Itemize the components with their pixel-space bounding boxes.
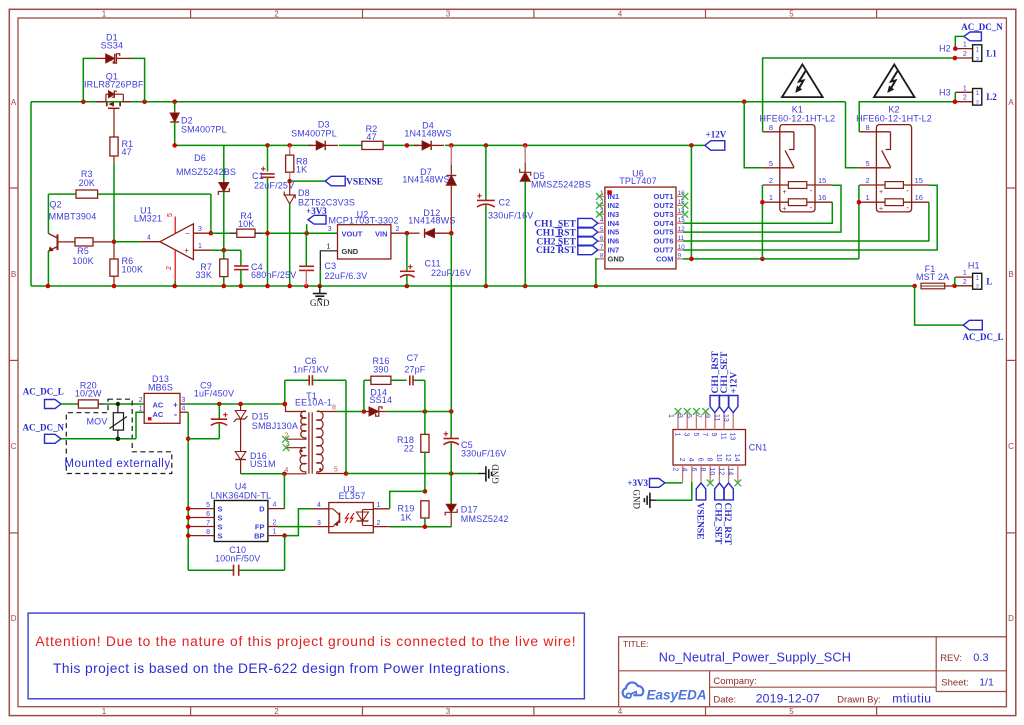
svg-text:100K: 100K	[122, 265, 144, 275]
svg-text:2: 2	[377, 520, 381, 527]
svg-text:3: 3	[198, 226, 202, 233]
bridge rectifier D13 (MB6S)	[139, 374, 188, 423]
svg-text:SS14: SS14	[369, 395, 392, 405]
svg-text:-: -	[810, 203, 813, 212]
diode D8 (zener BZT52C3V3S)	[284, 181, 355, 286]
resistor R7	[196, 250, 228, 286]
wire U6 GND to rail	[596, 259, 598, 286]
svg-text:2: 2	[166, 266, 173, 270]
capacitor C1	[252, 145, 294, 286]
svg-text:MST 2A: MST 2A	[916, 272, 949, 282]
svg-text:10/2W: 10/2W	[75, 389, 102, 399]
diode D5 (zener MMSZ5242BS)	[520, 145, 591, 286]
net flag CH1_RST (U6 IN5)	[536, 227, 598, 238]
svg-text:OUT5: OUT5	[653, 228, 673, 237]
wire OUT6 to K2 pin16	[683, 202, 929, 241]
svg-text:1N4148WS: 1N4148WS	[402, 175, 449, 185]
svg-text:4: 4	[285, 467, 289, 474]
svg-text:8: 8	[206, 529, 210, 536]
svg-text:5: 5	[685, 414, 692, 418]
svg-text:5: 5	[167, 213, 174, 217]
svg-text:IRLR8726PBF: IRLR8726PBF	[84, 79, 144, 89]
svg-text:IN5: IN5	[608, 228, 620, 237]
diode D1	[96, 33, 132, 64]
svg-text:TPL7407: TPL7407	[619, 176, 657, 186]
svg-text:3: 3	[446, 9, 451, 18]
wire D7/D12 column down to transformer row	[449, 231, 454, 412]
wire FP to U3 pin3	[278, 526, 311, 528]
svg-text:C: C	[11, 442, 17, 451]
svg-text:B: B	[11, 270, 16, 279]
svg-text:GND: GND	[608, 255, 625, 264]
svg-text:+: +	[782, 189, 786, 196]
svg-text:C: C	[1008, 442, 1014, 451]
no-connect X marks U6 OUT1-OUT3	[682, 193, 689, 218]
diode D17 (zener MMSZ5242)	[445, 474, 508, 527]
svg-text:L: L	[986, 276, 992, 286]
svg-text:5: 5	[334, 466, 338, 473]
svg-text:+12V: +12V	[706, 130, 727, 140]
svg-text:4: 4	[182, 406, 186, 413]
net flag +12V	[705, 130, 727, 151]
wire net rowA main horizontal	[31, 99, 846, 286]
svg-text:CN1: CN1	[749, 443, 767, 453]
svg-text:5: 5	[789, 9, 794, 18]
svg-text:1: 1	[963, 270, 967, 277]
svg-text:1: 1	[273, 529, 277, 536]
svg-text:5: 5	[789, 707, 794, 716]
capacitor C10	[188, 536, 284, 576]
wire junction H2 pin2	[953, 56, 958, 61]
svg-text:3: 3	[676, 414, 683, 418]
svg-text:8: 8	[706, 458, 713, 462]
diode D16 (US1M)	[235, 451, 275, 474]
resistor R1	[110, 125, 133, 163]
wire secondary GND row	[346, 471, 478, 476]
svg-text:13: 13	[722, 414, 729, 422]
svg-text:10K: 10K	[238, 219, 254, 229]
svg-text:-: -	[810, 186, 813, 195]
no-connect X CN1 pin8	[707, 480, 714, 487]
svg-text:IN7: IN7	[608, 246, 620, 255]
svg-text:22uF/6.3V: 22uF/6.3V	[325, 271, 368, 281]
svg-text:SM4007PL: SM4007PL	[181, 125, 227, 135]
net flag +3V3 (U2)	[306, 206, 327, 233]
svg-text:4: 4	[681, 468, 688, 472]
net flag AC_DC_L (input)	[23, 387, 64, 409]
svg-text:2: 2	[963, 95, 967, 102]
no-connect X CN1 pin14	[734, 480, 741, 487]
capacitor C4	[234, 250, 296, 286]
svg-text:C1: C1	[252, 171, 264, 181]
svg-text:330uF/16V: 330uF/16V	[461, 449, 506, 459]
svg-text:B: B	[1008, 270, 1013, 279]
svg-text:1: 1	[667, 414, 674, 418]
wire F1 junctions	[952, 277, 957, 288]
connector CN1	[667, 413, 767, 483]
svg-text:VSENSE: VSENSE	[694, 503, 704, 540]
wire rowA to K2 pin5	[846, 102, 860, 168]
svg-text:2: 2	[769, 176, 773, 185]
net flag CH2_RST (CN1 pin12)	[722, 483, 733, 545]
svg-text:3: 3	[328, 226, 332, 233]
svg-text:1: 1	[963, 42, 967, 49]
svg-text:12: 12	[717, 468, 724, 476]
svg-text:AC: AC	[153, 410, 164, 419]
svg-text:1uF/450V: 1uF/450V	[194, 389, 234, 399]
svg-text:IN3: IN3	[608, 210, 620, 219]
svg-text:1: 1	[673, 433, 680, 437]
svg-text:+12V: +12V	[729, 372, 739, 394]
wire T1 pin8 row to D14	[338, 409, 366, 414]
svg-text:EE10A-1: EE10A-1	[295, 398, 332, 408]
svg-text:4: 4	[317, 502, 321, 509]
resistor R20	[61, 380, 105, 408]
svg-text:2: 2	[866, 176, 870, 185]
svg-text:4: 4	[618, 9, 623, 18]
resistor R19	[398, 501, 429, 527]
svg-text:7: 7	[701, 433, 708, 437]
wire U3 pin2 row	[390, 525, 452, 530]
op-amp U1 (LM321)	[134, 206, 211, 287]
svg-text:OUT1: OUT1	[653, 192, 673, 201]
svg-text:D8: D8	[298, 188, 310, 198]
svg-text:EL357: EL357	[339, 491, 366, 501]
svg-text:5: 5	[769, 159, 773, 168]
svg-text:C3: C3	[325, 261, 337, 271]
svg-text:This project is based on the D: This project is based on the DER-622 des…	[53, 661, 510, 676]
warning triangle 1	[782, 65, 823, 98]
svg-text:−: −	[185, 229, 190, 238]
IC U6 (TPL7407)	[598, 169, 685, 269]
svg-text:15: 15	[818, 176, 826, 185]
svg-text:-: -	[174, 409, 177, 419]
diode D14 (SS14)	[364, 387, 392, 416]
svg-text:1: 1	[102, 707, 107, 716]
svg-text:14: 14	[733, 454, 740, 462]
svg-text:1nF/1KV: 1nF/1KV	[293, 364, 329, 374]
svg-text:6: 6	[690, 468, 697, 472]
svg-text:2: 2	[274, 707, 279, 716]
svg-text:No_Neutral_Power_Supply_SCH: No_Neutral_Power_Supply_SCH	[659, 651, 851, 665]
capacitor C3	[299, 233, 367, 286]
net flag CH1_SET (CN1 pin11)	[719, 351, 730, 412]
svg-text:+3V3: +3V3	[627, 478, 648, 488]
svg-text:A: A	[11, 98, 17, 107]
wire K1 coil common to COM	[760, 185, 765, 259]
svg-text:Attention! Due to the nature o: Attention! Due to the nature of this pro…	[35, 634, 576, 649]
svg-text:+: +	[782, 206, 786, 213]
svg-text:7: 7	[694, 414, 701, 418]
net flag CH2_SET (U6 IN6)	[536, 236, 597, 247]
svg-text:47: 47	[122, 147, 132, 157]
svg-text:MMSZ5242BS: MMSZ5242BS	[531, 180, 591, 190]
relay K1 (HFE60-12-1HT-L2)	[760, 105, 836, 214]
svg-text:MMBT3904: MMBT3904	[49, 212, 97, 222]
svg-text:27pF: 27pF	[404, 365, 425, 375]
svg-text:14: 14	[727, 468, 734, 476]
svg-text:2: 2	[396, 226, 400, 233]
wire net row2 horizontal	[172, 143, 704, 148]
wire OUT5 to K1 pin15	[683, 185, 841, 232]
svg-text:2: 2	[273, 520, 277, 527]
net flag VSENSE (CN1 pin6)	[694, 483, 705, 540]
svg-text:D6: D6	[194, 153, 206, 163]
wire K2 coil common to COM	[857, 185, 862, 259]
wire OUT7 to K2 pin15	[683, 185, 937, 250]
svg-text:EasyEDA: EasyEDA	[647, 688, 707, 703]
diode D12	[407, 208, 456, 238]
net flag CH2_RST (U6 IN7)	[536, 245, 598, 256]
svg-text:SMBJ130A: SMBJ130A	[252, 421, 298, 431]
svg-text:HFE60-12-1HT-L2: HFE60-12-1HT-L2	[760, 113, 836, 123]
svg-text:AC_DC_N: AC_DC_N	[961, 22, 1003, 32]
svg-text:LM321: LM321	[134, 214, 162, 224]
capacitor C5	[444, 412, 507, 474]
svg-text:AC_DC_L: AC_DC_L	[962, 332, 1003, 342]
capacitor C11	[400, 233, 471, 286]
svg-text:3: 3	[683, 433, 690, 437]
svg-text:1: 1	[963, 85, 967, 92]
svg-text:OUT4: OUT4	[653, 219, 674, 228]
net flag CH1_SET (U6 IN4)	[534, 218, 598, 229]
wire opamp pin1 node	[211, 248, 241, 253]
transformer T1 (EE10A-1)	[284, 391, 346, 474]
ground symbol GND (main rail)	[310, 286, 330, 308]
svg-text:4: 4	[273, 502, 277, 509]
resistor R4	[237, 211, 263, 237]
svg-text:2: 2	[671, 468, 678, 472]
title block	[619, 637, 1007, 707]
svg-text:Drawn By:: Drawn By:	[837, 695, 881, 706]
svg-text:8: 8	[866, 123, 870, 132]
wire R8 to VSENSE junction	[287, 172, 325, 183]
diode D6 (zener MMSZ5242BS)	[176, 145, 236, 250]
svg-text:16: 16	[915, 193, 923, 202]
svg-text:11: 11	[719, 433, 726, 440]
svg-text:5: 5	[692, 433, 699, 437]
net flag AC_DC_N (input)	[23, 423, 65, 444]
svg-text:MCP1703T-3302: MCP1703T-3302	[329, 215, 399, 225]
net flag AC_DC_L (right)	[962, 320, 1003, 342]
svg-text:AC: AC	[153, 400, 164, 409]
svg-text:VSENSE: VSENSE	[346, 178, 383, 188]
svg-text:D15: D15	[252, 412, 269, 422]
wire opamp output node	[112, 239, 141, 244]
net flag CH2_SET (CN1 pin10)	[713, 483, 724, 545]
svg-text:S: S	[218, 531, 223, 540]
svg-text:HFE60-12-1HT-L2: HFE60-12-1HT-L2	[856, 113, 932, 123]
resistor R8	[286, 145, 308, 174]
svg-text:12: 12	[724, 454, 731, 462]
capacitor C2	[477, 145, 533, 286]
svg-text:4: 4	[687, 458, 694, 462]
svg-text:10: 10	[708, 468, 715, 476]
svg-text:0.3: 0.3	[973, 652, 988, 664]
resistor R3	[48, 169, 211, 233]
svg-text:GND: GND	[632, 490, 642, 510]
wire R4 to U2 VOUT	[263, 231, 338, 236]
svg-text:8: 8	[600, 253, 604, 260]
svg-text:H1: H1	[968, 261, 980, 271]
wire opamp pin3 node	[209, 231, 237, 236]
resistor R18	[397, 412, 429, 454]
svg-text:MMSZ5242: MMSZ5242	[461, 514, 509, 524]
wire U3 pin4 to BP node	[282, 509, 311, 538]
svg-text:-: -	[906, 186, 909, 195]
svg-text:5: 5	[600, 226, 604, 233]
capacitor C7	[404, 353, 425, 412]
wire rail to AC_DC_L flag	[915, 286, 964, 325]
svg-text:2: 2	[139, 397, 143, 404]
warning triangle 2	[874, 65, 915, 98]
wire R20 to bridge	[105, 403, 145, 405]
connector H3	[939, 85, 997, 107]
wire AC_DC_N to H2 pin1	[953, 36, 964, 50]
svg-text:Sheet:: Sheet:	[941, 678, 968, 689]
net flag CH1_RST (CN1 pin9)	[710, 351, 721, 413]
svg-text:BP: BP	[254, 531, 264, 540]
resistor R5	[72, 238, 114, 266]
wire D14 output row	[387, 409, 454, 414]
svg-text:AC_DC_N: AC_DC_N	[23, 423, 65, 433]
svg-text:MOV: MOV	[87, 417, 108, 427]
wire net rail horizontal (live return)	[31, 284, 917, 289]
wire U2 VIN node	[405, 231, 410, 236]
svg-text:2: 2	[678, 458, 685, 462]
svg-text:20K: 20K	[79, 178, 95, 188]
svg-text:47: 47	[366, 132, 376, 142]
svg-text:4: 4	[147, 235, 151, 242]
svg-text:IN4: IN4	[608, 219, 621, 228]
svg-text:1: 1	[377, 502, 381, 509]
diode D2	[170, 102, 227, 146]
svg-text:L2: L2	[986, 92, 997, 102]
svg-text:C7: C7	[407, 353, 419, 363]
svg-text:Mounted externally: Mounted externally	[64, 458, 170, 470]
svg-text:Date:: Date:	[713, 695, 736, 706]
svg-text:3: 3	[317, 520, 321, 527]
svg-text:D: D	[259, 504, 265, 513]
wire H2 pin2 to K1 pin8	[763, 58, 955, 132]
svg-text:100K: 100K	[72, 256, 94, 266]
svg-text:6: 6	[600, 235, 604, 242]
svg-text:1N4148WS: 1N4148WS	[404, 129, 451, 139]
net flag AC_DC_N (top)	[961, 22, 1003, 41]
diode D15 (TVS SMBJ130A)	[234, 404, 298, 452]
svg-text:1: 1	[102, 9, 107, 18]
net flag +3V3 (CN1 pin2)	[627, 478, 682, 488]
wire D16 to drain node	[241, 472, 287, 477]
svg-text:9: 9	[704, 414, 711, 418]
svg-text:6: 6	[696, 458, 703, 462]
wire bridge minus column	[186, 412, 219, 570]
svg-text:16: 16	[818, 193, 826, 202]
wire R18 to R19	[423, 452, 428, 493]
wire H3 pin1 jog to pin2	[953, 92, 958, 104]
ground symbol GND (CN1 pin4)	[632, 482, 692, 509]
capacitor C9	[194, 380, 234, 438]
svg-text:D: D	[11, 614, 17, 623]
fuse F1 (MST 2A)	[916, 264, 955, 289]
no-connect X T1 pin2	[282, 436, 289, 443]
svg-text:Company:: Company:	[713, 676, 756, 687]
svg-text:4: 4	[618, 707, 623, 716]
svg-text:-: -	[906, 203, 909, 212]
IC U2 (MCP1703T-3302)	[320, 210, 407, 287]
connector H1	[955, 261, 992, 292]
diode D4	[404, 121, 451, 153]
svg-text:13: 13	[729, 433, 736, 441]
diode D3	[291, 120, 339, 153]
ground symbol GND (secondary)	[478, 464, 501, 484]
svg-text:C2: C2	[499, 198, 511, 208]
no-connect X marks CN1 pins 1,3,5,7	[675, 408, 709, 415]
svg-text:R5: R5	[77, 246, 89, 256]
svg-text:+: +	[879, 206, 883, 213]
svg-text:D: D	[1008, 614, 1014, 623]
svg-text:11: 11	[713, 414, 720, 421]
svg-text:+: +	[879, 189, 883, 196]
svg-text:SM4007PL: SM4007PL	[291, 129, 337, 139]
svg-text:22: 22	[404, 444, 414, 454]
svg-text:OUT7: OUT7	[653, 246, 673, 255]
wire D1 bypass loop	[83, 58, 144, 101]
connector H2	[939, 42, 997, 64]
varistor MOV	[87, 402, 127, 441]
svg-text:IN6: IN6	[608, 237, 620, 246]
svg-text:A: A	[1008, 98, 1014, 107]
transistor Q1 (MOSFET)	[84, 72, 144, 126]
wire OUT4 to K1 pin16	[683, 202, 832, 223]
svg-text:680nF/25V: 680nF/25V	[251, 270, 296, 280]
svg-text:GND: GND	[310, 298, 330, 308]
svg-text:S: S	[218, 513, 223, 522]
svg-text:VIN: VIN	[375, 230, 388, 239]
svg-text:3: 3	[182, 397, 186, 404]
wire K2 pin8 to H3 pin2	[859, 102, 955, 132]
wire R1 to opamp output node	[113, 163, 115, 242]
no-connect X T1 pin3	[283, 444, 290, 451]
svg-text:+: +	[184, 246, 189, 255]
svg-text:1/1: 1/1	[979, 677, 994, 689]
svg-text:LNK364DN-TL: LNK364DN-TL	[210, 490, 271, 500]
svg-text:+3V3: +3V3	[306, 206, 327, 216]
svg-text:L1: L1	[986, 48, 997, 58]
svg-text:1: 1	[139, 406, 143, 413]
svg-text:1N4148WS: 1N4148WS	[408, 216, 455, 226]
svg-text:CH2 RST: CH2 RST	[536, 246, 577, 256]
svg-text:9: 9	[678, 253, 682, 260]
svg-text:S: S	[218, 504, 223, 513]
svg-text:1: 1	[327, 244, 331, 251]
svg-text:1: 1	[198, 243, 202, 250]
svg-text:33K: 33K	[196, 270, 212, 280]
resistor R6	[110, 242, 143, 286]
svg-text:7: 7	[600, 244, 604, 251]
svg-text:H2: H2	[939, 44, 951, 54]
wire bridge plus row	[185, 402, 287, 407]
svg-text:OUT3: OUT3	[653, 210, 673, 219]
svg-text:1K: 1K	[296, 165, 307, 175]
svg-text:H3: H3	[939, 87, 951, 97]
svg-text:mtiutiu: mtiutiu	[892, 692, 931, 706]
no-connect X marks U6 IN1-IN3	[596, 193, 603, 218]
capacitor C6	[283, 356, 347, 406]
svg-text:7: 7	[206, 520, 210, 527]
svg-text:2019-12-07: 2019-12-07	[756, 692, 820, 706]
svg-text:OUT2: OUT2	[653, 201, 673, 210]
